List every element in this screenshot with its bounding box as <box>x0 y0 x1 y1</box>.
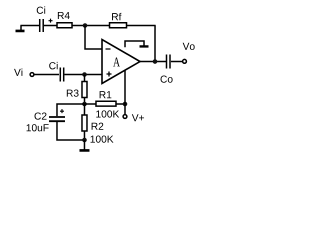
label 100K (R1) <box>96 110 119 117</box>
node junction R1/V+ <box>123 102 128 107</box>
label Vo <box>183 43 195 50</box>
polarity + of Ci top <box>49 19 53 23</box>
capacitor Ci (top) <box>40 19 44 32</box>
resistor R1 <box>96 101 116 106</box>
op-amp minus sign <box>106 48 111 50</box>
resistor Rf <box>110 23 127 28</box>
label C2 <box>35 112 47 119</box>
wire Rf to feedback corner <box>127 25 156 27</box>
op-amp power pin wire to ground <box>125 41 144 47</box>
wire junction down to R3 <box>83 74 85 81</box>
wire Ci to non-inverting input <box>64 73 102 75</box>
resistor R4 <box>57 23 72 28</box>
ground (top-left) <box>16 25 25 31</box>
label Rf <box>112 13 121 20</box>
ground (bottom) <box>79 140 89 150</box>
wire Ci to R4 <box>44 24 57 26</box>
ground (op-amp power pin) <box>140 45 149 47</box>
label R3 <box>67 89 79 96</box>
node junction C2/R2/ground <box>82 138 87 143</box>
wire mid node to C2 top <box>57 104 85 116</box>
wire R2 to ground node <box>83 131 85 140</box>
label 10uF <box>27 124 49 131</box>
capacitor Ci (input) <box>60 67 63 81</box>
wire R4 to Rf <box>72 24 109 26</box>
wire C2 bottom to ground node <box>57 122 85 140</box>
wire mid node to R1 <box>84 103 96 105</box>
input terminal Vi <box>30 73 34 77</box>
capacitor Co <box>167 55 171 69</box>
wire feedback vertical down to output node <box>154 26 156 62</box>
wire junction down to inverting input <box>85 25 102 49</box>
wire op-amp output to Co <box>140 61 166 63</box>
resistor R3 <box>82 81 87 97</box>
wire Vi to Ci <box>34 73 59 75</box>
label R4 <box>58 12 70 19</box>
op-amp U1 triangle <box>102 39 140 83</box>
wire R1 to V+ node <box>116 103 125 105</box>
node junction R4/Rf/inverting input <box>83 23 88 28</box>
label Ci (top) <box>37 6 45 13</box>
wire ground to Ci <box>20 24 39 26</box>
op-amp plus sign <box>107 71 112 76</box>
wire op-amp V+ pin down to terminal <box>124 70 126 114</box>
capacitor C2 <box>49 117 65 121</box>
terminal Vo <box>183 59 187 63</box>
node junction Ci/R3 <box>82 72 87 77</box>
label R2 <box>92 123 104 130</box>
label V+ <box>132 114 144 121</box>
wire R3 to mid node <box>83 97 85 104</box>
node output junction <box>153 59 158 64</box>
label Vi <box>14 68 22 75</box>
polarity + of C2 <box>60 109 64 113</box>
op-amp gain label A <box>113 57 120 66</box>
label 100K (R2) <box>91 135 114 142</box>
terminal V+ <box>123 115 127 119</box>
wire Co to Vo terminal <box>171 61 182 63</box>
resistor R2 <box>82 115 87 131</box>
label R1 <box>100 91 112 98</box>
node mid junction R3/R1/R2/C2 <box>82 102 87 107</box>
label Co <box>161 75 173 82</box>
wire R2 stub from mid node <box>83 104 85 115</box>
label Ci (input) <box>49 62 57 69</box>
